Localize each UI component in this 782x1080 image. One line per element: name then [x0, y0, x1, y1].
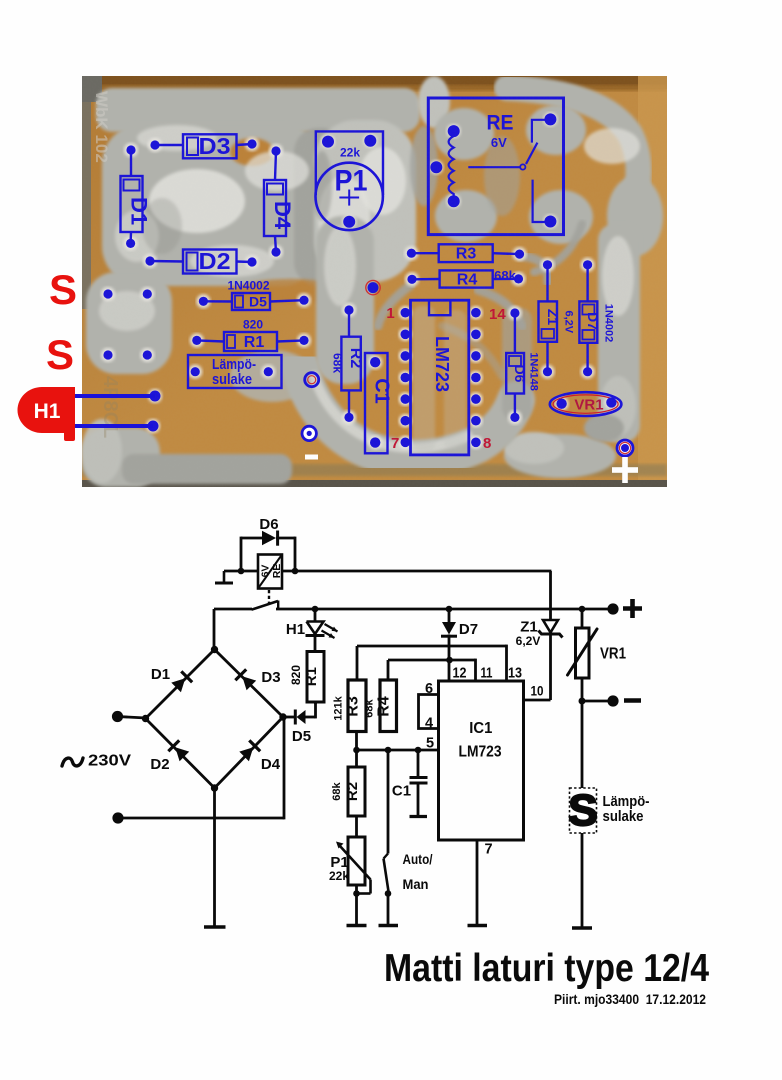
svg-text:11: 11	[481, 666, 493, 682]
svg-text:VR1: VR1	[600, 646, 626, 663]
svg-text:7: 7	[485, 842, 493, 858]
svg-text:D3: D3	[261, 669, 280, 686]
svg-text:Man: Man	[403, 876, 429, 892]
svg-text:H1: H1	[34, 400, 61, 423]
svg-text:D5: D5	[292, 728, 311, 745]
svg-text:R4: R4	[376, 696, 393, 717]
svg-text:C1: C1	[392, 783, 411, 800]
svg-text:Auto/: Auto/	[403, 851, 433, 867]
svg-text:D2: D2	[150, 756, 169, 773]
svg-text:S: S	[568, 786, 597, 835]
svg-text:10: 10	[531, 683, 544, 699]
svg-text:R1: R1	[303, 667, 320, 686]
svg-text:sulake: sulake	[603, 808, 644, 825]
svg-text:230V: 230V	[88, 753, 132, 770]
svg-text:R3: R3	[345, 696, 362, 717]
svg-text:22k: 22k	[329, 869, 349, 883]
svg-text:H1: H1	[286, 621, 305, 638]
svg-text:R2: R2	[344, 782, 361, 801]
svg-text:6V: 6V	[260, 565, 272, 578]
svg-text:68k: 68k	[364, 698, 376, 717]
svg-text:D7: D7	[459, 621, 478, 638]
svg-text:LM723: LM723	[459, 744, 502, 761]
svg-text:121k: 121k	[333, 695, 345, 720]
svg-text:S: S	[49, 266, 77, 313]
svg-text:13: 13	[508, 666, 522, 682]
svg-text:D4: D4	[261, 756, 281, 773]
svg-text:S: S	[46, 331, 74, 378]
svg-text:RE: RE	[271, 564, 283, 579]
svg-text:Piirt. mjo33400 17.12.2012: Piirt. mjo33400 17.12.2012	[554, 991, 706, 1007]
svg-text:Matti laturi type 12/4: Matti laturi type 12/4	[384, 947, 710, 990]
svg-text:D6: D6	[259, 516, 278, 533]
svg-text:IC1: IC1	[469, 720, 492, 737]
svg-text:Z1: Z1	[520, 619, 538, 636]
svg-text:D1: D1	[151, 666, 170, 683]
svg-text:68k: 68k	[331, 781, 343, 800]
svg-text:6,2V: 6,2V	[516, 634, 541, 648]
svg-text:820: 820	[289, 665, 303, 685]
svg-text:12: 12	[453, 666, 467, 682]
